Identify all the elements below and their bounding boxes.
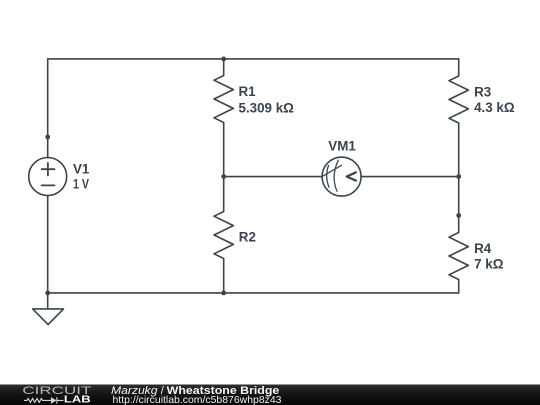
VM1 less-than mark (347, 172, 356, 180)
svg-text:R3: R3 (474, 85, 491, 100)
svg-text:http://circuitlab.com/c5b876wh: http://circuitlab.com/c5b876whp8z43 (113, 394, 282, 405)
svg-text:R2: R2 (239, 229, 256, 244)
wire left rail upper (top wire to V1) (47, 59, 49, 158)
svg-text:V1: V1 (73, 162, 90, 177)
ground symbol (33, 293, 64, 325)
wire left rail lower (V1 to bottom wire) (47, 196, 49, 293)
wire middle horizontal left (node to VM1) (224, 176, 322, 178)
node bottom middle (R2 bottom) (221, 291, 226, 296)
node middle junction (R1/R2/VM1) (221, 174, 226, 179)
node V1 top terminal (45, 135, 50, 140)
svg-text:R4: R4 (474, 241, 492, 256)
node bottom-left junction (45, 291, 50, 296)
wire middle horizontal right (VM1 to right rail) (361, 176, 459, 178)
svg-text:5.309 kΩ: 5.309 kΩ (239, 100, 295, 115)
resistor R4 (with leads, right rail lower) (449, 215, 468, 293)
node R4 top terminal (456, 213, 461, 218)
resistor R2 (with leads, middle rail lower) (214, 177, 233, 293)
V1 minus sign (42, 184, 55, 186)
resistor R3 (with leads, right rail upper) (449, 59, 468, 216)
logo resistor-diode glyph (24, 397, 64, 404)
resistor R1 (with leads, middle rail upper) (214, 59, 233, 177)
voltage source V1 circle (29, 158, 67, 196)
V1 plus sign (42, 163, 55, 176)
wire bottom horizontal (48, 292, 459, 294)
svg-text:7 kΩ: 7 kΩ (474, 256, 504, 271)
svg-text:R1: R1 (239, 84, 257, 99)
svg-text:LAB: LAB (64, 394, 91, 405)
node right middle (VM1/R3) (456, 174, 461, 179)
node top middle (R1 top) (221, 57, 226, 62)
svg-text:4.3 kΩ: 4.3 kΩ (474, 100, 515, 115)
wire top horizontal (48, 58, 459, 60)
svg-text:VM1: VM1 (328, 138, 356, 153)
VM1 needle (323, 165, 341, 176)
VM1 meter arc inner (327, 166, 329, 188)
VM1 meter arc outer (334, 160, 338, 191)
voltmeter VM1 circle (322, 157, 361, 196)
svg-text:1 V: 1 V (73, 176, 89, 191)
